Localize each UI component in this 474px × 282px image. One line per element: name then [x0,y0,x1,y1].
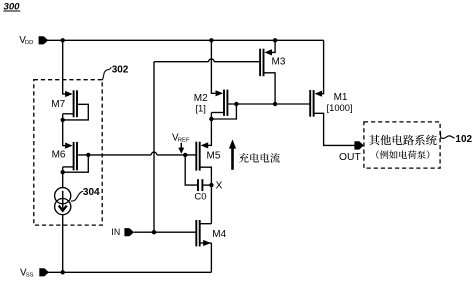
block text line 1 (CJK) [369,135,437,146]
svg-text:DD: DD [25,40,34,46]
svg-text:C0: C0 [194,192,206,203]
wire: IN to M4 gate [134,231,196,233]
wire: mirror gate line M2 to M1 [236,103,310,105]
block text line 2 (CJK) [376,150,429,159]
svg-text:M3: M3 [272,57,286,68]
wire: M6 gate to VREF node (hops over IN branch) [88,154,151,156]
svg-text:X: X [216,181,223,192]
wire: VDD to M7 source [62,40,64,94]
transistor M4 (NMOS input device) [196,220,199,246]
transistor M5 (PMOS cascode) [196,142,199,171]
junction: M2 gate node [234,102,238,106]
wire: VDD rail [48,39,324,41]
wire: IN branch up to M3 gate row [153,62,155,233]
junction: VDD / M3 source [273,38,277,42]
M5 source lead with PMOS arrow [201,142,212,148]
wire: M2 gate wrap to drain node [211,104,236,119]
wire: VSS rail [48,271,211,273]
svg-text:302: 302 [112,65,129,76]
transistor M6 (PMOS diode-connected) [63,142,77,170]
wire: M7 gate wrap to drain node [63,104,89,120]
junction: M2 drain node [209,117,213,121]
wire: node X down to M4 drain [210,185,212,224]
svg-text:OUT: OUT [339,152,361,163]
junction: VDD / M2 source [209,38,213,42]
leader squiggle to 102 [440,131,454,138]
M4 drain lead [200,223,212,225]
svg-text:SS: SS [26,272,34,278]
node X junction [209,183,213,187]
junction: VDD / M7 source [61,38,65,42]
M3 source lead with PMOS arrow [264,40,275,55]
svg-text:M4: M4 [212,229,226,240]
label VREF [172,133,190,144]
transistor M7 (PMOS diode-connected) [63,90,77,117]
junction: IN / M3-gate branch [152,230,156,234]
junction: M3 drain / mirror gate line [273,102,277,106]
capacitor C0 [185,155,211,191]
VREF pointer arrow (down) [178,143,184,154]
transistor M1 (PMOS mirror output [1000]) [310,90,313,117]
leader squiggle to 302 [102,67,111,80]
junction: M7 drain / gate node [61,118,65,122]
current source 304 (two circles with down arrow) [55,188,71,215]
svg-text:[1]: [1] [195,103,205,114]
transistor M2 (PMOS diode-connected, mirror input [1]) [211,90,227,116]
wire hop over vertical IN branch [151,152,157,155]
svg-text:M6: M6 [52,149,66,160]
charging current arrow (up) [229,139,236,169]
leader squiggle to 304 [71,191,83,201]
figure label 300 [3,2,20,13]
wire: current source to VSS [62,215,64,273]
supply terminal VDD [19,35,48,46]
junction: VSS rail / left branch [61,270,65,274]
svg-text:[1000]: [1000] [327,102,353,113]
wire: M2 drain down to M5 source [210,113,212,147]
wire: VDD to M2 source [210,40,212,94]
wire: M3 drain to mirror gate line [264,73,276,104]
M1 source lead with PMOS arrow [315,40,324,97]
supply terminal VSS [20,268,49,279]
wire: IN branch to M3 gate (hops over M2 source) [154,61,209,63]
wire: M1 drain to OUT [314,113,356,145]
output terminal tag OUT [354,141,363,149]
label: charging current (CJK) [239,153,280,163]
dashed block 302 (bias generator) [34,80,102,225]
M4 source lead with NMOS arrow [200,240,212,246]
svg-text:M5: M5 [207,151,221,162]
wire: M5 drain down to node X [200,167,212,185]
svg-text:102: 102 [455,134,472,145]
wire: M6 drain down to current source [62,167,64,188]
wire hop over M2 source column [209,59,215,62]
junction: VREF node [183,153,187,157]
transistor M3 (PMOS) [260,49,263,76]
svg-text:304: 304 [83,187,100,198]
junction: M6 gate node [86,153,90,157]
wire: M6 gate stub and wrap to drain node [63,155,89,172]
svg-text:REF: REF [178,138,190,144]
svg-text:IN: IN [111,227,120,237]
svg-text:M7: M7 [51,99,65,110]
wire: M4 source to VSS [210,243,212,272]
junction: M6 drain node [61,170,65,174]
dashed block 102 (other circuitry, e.g. charge pump) [364,122,440,168]
wire: M7 drain down to M6 source [62,114,64,146]
input terminal IN [111,227,134,237]
